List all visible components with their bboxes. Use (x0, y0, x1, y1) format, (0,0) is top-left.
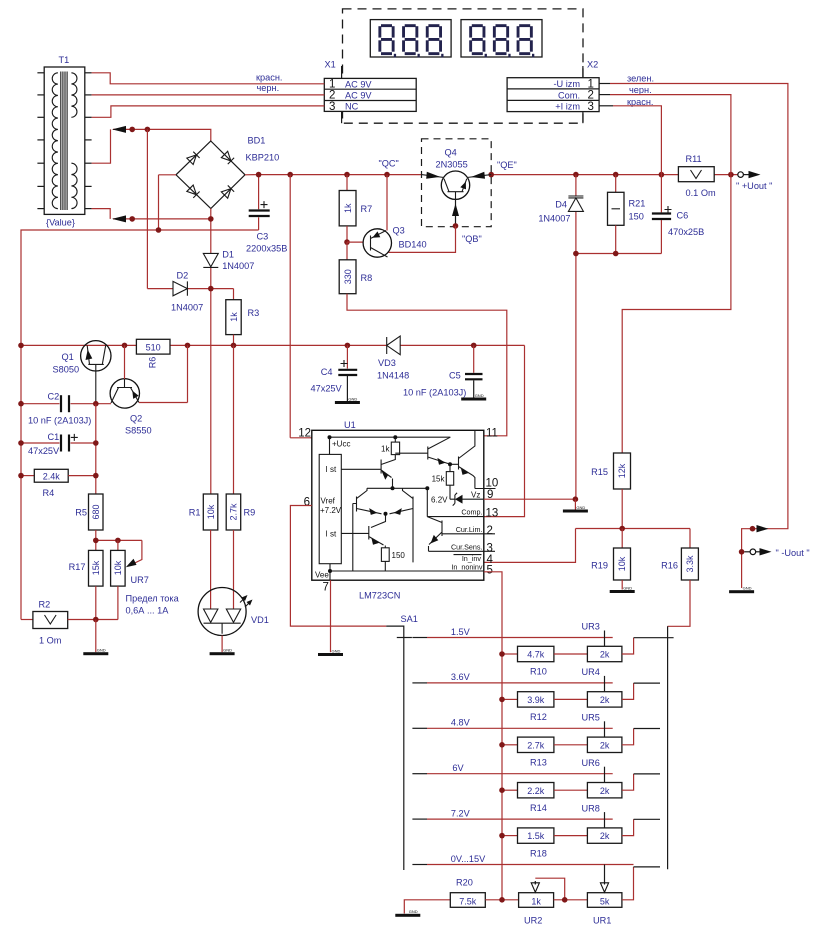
svg-text:3: 3 (329, 101, 335, 113)
svg-text:R12: R12 (530, 712, 547, 722)
svg-text:7.5k: 7.5k (459, 896, 477, 906)
svg-text:зелен.: зелен. (627, 74, 654, 84)
svg-text:1N4007: 1N4007 (538, 214, 570, 224)
svg-text:3.9k: 3.9k (527, 695, 545, 705)
svg-text:1k: 1k (381, 445, 390, 454)
svg-text:Comp.: Comp. (461, 508, 482, 517)
svg-text:R19: R19 (591, 561, 608, 571)
svg-text:R6: R6 (148, 357, 158, 369)
svg-text:6: 6 (304, 497, 310, 509)
svg-text:X1: X1 (325, 60, 336, 70)
svg-text:3: 3 (588, 101, 594, 113)
svg-text:SA1: SA1 (401, 614, 418, 624)
svg-text:+7.2V: +7.2V (320, 506, 342, 515)
svg-text:Cur.Sens.: Cur.Sens. (451, 542, 483, 551)
svg-text:5: 5 (487, 564, 493, 576)
svg-text:2N3055: 2N3055 (436, 160, 468, 170)
svg-text:NC: NC (345, 102, 359, 112)
svg-text:UR3: UR3 (582, 622, 600, 632)
svg-text:2.7k: 2.7k (527, 740, 545, 750)
svg-text:1.5k: 1.5k (527, 831, 545, 841)
svg-text:VD3: VD3 (378, 358, 396, 368)
svg-text:Q4: Q4 (445, 148, 457, 158)
svg-text:330: 330 (343, 269, 353, 284)
svg-text:1N4007: 1N4007 (222, 261, 254, 271)
svg-text:7.2V: 7.2V (451, 808, 471, 818)
svg-text:C2: C2 (48, 392, 60, 402)
svg-text:D1: D1 (222, 250, 234, 260)
svg-text:3.6V: 3.6V (451, 672, 471, 682)
svg-text:4.8V: 4.8V (451, 718, 471, 728)
svg-text:1 Om: 1 Om (39, 636, 62, 646)
svg-text:15k: 15k (432, 475, 446, 484)
svg-text:2k: 2k (600, 650, 610, 660)
svg-text:UR8: UR8 (582, 803, 600, 813)
svg-text:I st: I st (326, 530, 337, 539)
svg-text:7: 7 (323, 582, 329, 594)
svg-text:красн.: красн. (256, 73, 282, 83)
svg-text:Vref: Vref (321, 497, 336, 506)
svg-text:2k: 2k (600, 695, 610, 705)
svg-text:"QE": "QE" (497, 160, 517, 170)
svg-text:R8: R8 (361, 273, 373, 283)
svg-text:R9: R9 (244, 508, 256, 518)
svg-text:C4: C4 (321, 367, 333, 377)
svg-text:47x25V: 47x25V (28, 446, 60, 456)
svg-text:{Value}: {Value} (46, 218, 75, 228)
svg-text:2.2k: 2.2k (527, 786, 545, 796)
svg-text:R15: R15 (591, 467, 608, 477)
svg-text:In_noninv: In_noninv (451, 562, 483, 571)
svg-text:5k: 5k (600, 896, 610, 906)
svg-text:S8050: S8050 (53, 365, 80, 375)
svg-text:2.7k: 2.7k (229, 503, 239, 521)
svg-text:R20: R20 (456, 878, 473, 888)
svg-text:Vz: Vz (471, 491, 480, 500)
svg-text:R2: R2 (39, 600, 51, 610)
svg-text:D4: D4 (555, 200, 567, 210)
svg-text:-U izm: -U izm (553, 79, 580, 89)
svg-text:BD1: BD1 (248, 136, 266, 146)
svg-text:AC 9V: AC 9V (345, 90, 372, 100)
svg-text:T1: T1 (59, 55, 70, 65)
svg-text:" -Uout ": " -Uout " (776, 548, 810, 558)
svg-text:AC 9V: AC 9V (345, 79, 372, 89)
svg-text:12k: 12k (617, 463, 627, 478)
svg-text:10 nF (2A103J): 10 nF (2A103J) (403, 388, 466, 398)
svg-text:R16: R16 (661, 561, 678, 571)
svg-text:Q2: Q2 (130, 414, 142, 424)
svg-text:R14: R14 (530, 803, 547, 813)
svg-text:UR6: UR6 (582, 758, 600, 768)
svg-text:U1: U1 (344, 420, 356, 430)
svg-text:UR7: UR7 (131, 575, 149, 585)
svg-text:" +Uout ": " +Uout " (736, 181, 772, 191)
svg-text:2k: 2k (600, 831, 610, 841)
svg-text:10 nF (2A103J): 10 nF (2A103J) (28, 416, 91, 426)
svg-text:2k: 2k (600, 740, 610, 750)
svg-text:BD140: BD140 (399, 240, 427, 250)
svg-text:2k: 2k (600, 786, 610, 796)
svg-text:R1: R1 (189, 508, 201, 518)
svg-text:6.2V: 6.2V (431, 496, 448, 505)
svg-text:Q3: Q3 (393, 226, 405, 236)
svg-text:X2: X2 (587, 60, 598, 70)
svg-text:LM723CN: LM723CN (359, 591, 400, 601)
svg-text:"QB": "QB" (462, 234, 482, 244)
svg-text:10k: 10k (617, 556, 627, 571)
svg-text:R18: R18 (530, 848, 547, 858)
svg-text:510: 510 (146, 342, 161, 352)
svg-text:I st: I st (326, 465, 337, 474)
svg-text:Com.: Com. (558, 90, 580, 100)
svg-text:11: 11 (486, 428, 498, 440)
svg-text:R7: R7 (361, 204, 373, 214)
svg-text:S8550: S8550 (125, 426, 152, 436)
svg-text:1.5V: 1.5V (451, 627, 471, 637)
svg-text:R4: R4 (43, 488, 55, 498)
svg-text:Vee: Vee (315, 571, 329, 580)
svg-text:2200x35B: 2200x35B (246, 244, 287, 254)
svg-text:+I izm: +I izm (555, 102, 580, 112)
svg-text:2: 2 (487, 525, 493, 537)
svg-text:"QC": "QC" (379, 159, 399, 169)
svg-text:15k: 15k (91, 560, 101, 575)
svg-text:UR5: UR5 (582, 713, 600, 723)
svg-text:2: 2 (588, 90, 594, 102)
svg-text:R17: R17 (69, 562, 86, 572)
svg-text:+Ucc: +Ucc (332, 440, 350, 449)
svg-text:черн.: черн. (629, 85, 652, 95)
svg-text:UR2: UR2 (524, 916, 542, 926)
svg-text:680: 680 (91, 504, 101, 519)
svg-text:1: 1 (588, 78, 594, 90)
svg-text:C5: C5 (449, 371, 461, 381)
svg-text:Предел тока: Предел тока (126, 594, 180, 604)
svg-text:R10: R10 (530, 667, 547, 677)
svg-text:KBP210: KBP210 (246, 153, 280, 163)
svg-text:R3: R3 (248, 308, 260, 318)
svg-text:150: 150 (392, 551, 406, 560)
svg-text:470x25B: 470x25B (668, 227, 704, 237)
svg-text:1k: 1k (531, 896, 541, 906)
svg-text:R21: R21 (629, 199, 646, 209)
svg-text:47x25V: 47x25V (311, 384, 343, 394)
svg-text:0,6А ... 1А: 0,6А ... 1А (126, 606, 170, 616)
svg-text:Cur.Lim.: Cur.Lim. (456, 525, 483, 534)
svg-text:10: 10 (486, 478, 499, 490)
svg-text:D2: D2 (177, 271, 189, 281)
svg-text:10k: 10k (206, 504, 216, 519)
svg-text:0V...15V: 0V...15V (451, 854, 486, 864)
svg-text:2.4k: 2.4k (43, 472, 61, 482)
svg-text:1k: 1k (229, 312, 239, 322)
svg-text:C6: C6 (677, 211, 689, 221)
svg-text:R5: R5 (75, 508, 87, 518)
svg-text:12: 12 (298, 428, 311, 440)
svg-text:150: 150 (629, 212, 644, 222)
svg-text:R13: R13 (530, 758, 547, 768)
svg-text:C1: C1 (48, 432, 60, 442)
svg-text:UR4: UR4 (582, 667, 600, 677)
svg-text:4.7k: 4.7k (527, 650, 545, 660)
svg-text:0.1 Om: 0.1 Om (686, 188, 716, 198)
svg-text:1N4148: 1N4148 (377, 371, 409, 381)
svg-text:1N4007: 1N4007 (171, 303, 203, 313)
svg-text:6V: 6V (452, 763, 464, 773)
svg-text:Q1: Q1 (62, 352, 74, 362)
svg-text:3.3k: 3.3k (685, 555, 695, 573)
svg-text:R11: R11 (686, 154, 702, 164)
svg-text:UR1: UR1 (593, 916, 611, 926)
svg-text:1k: 1k (343, 203, 353, 213)
svg-text:3: 3 (487, 543, 493, 555)
svg-text:VD1: VD1 (251, 615, 269, 625)
svg-text:C3: C3 (257, 232, 269, 242)
svg-text:13: 13 (486, 507, 499, 519)
svg-text:10k: 10k (113, 560, 123, 575)
